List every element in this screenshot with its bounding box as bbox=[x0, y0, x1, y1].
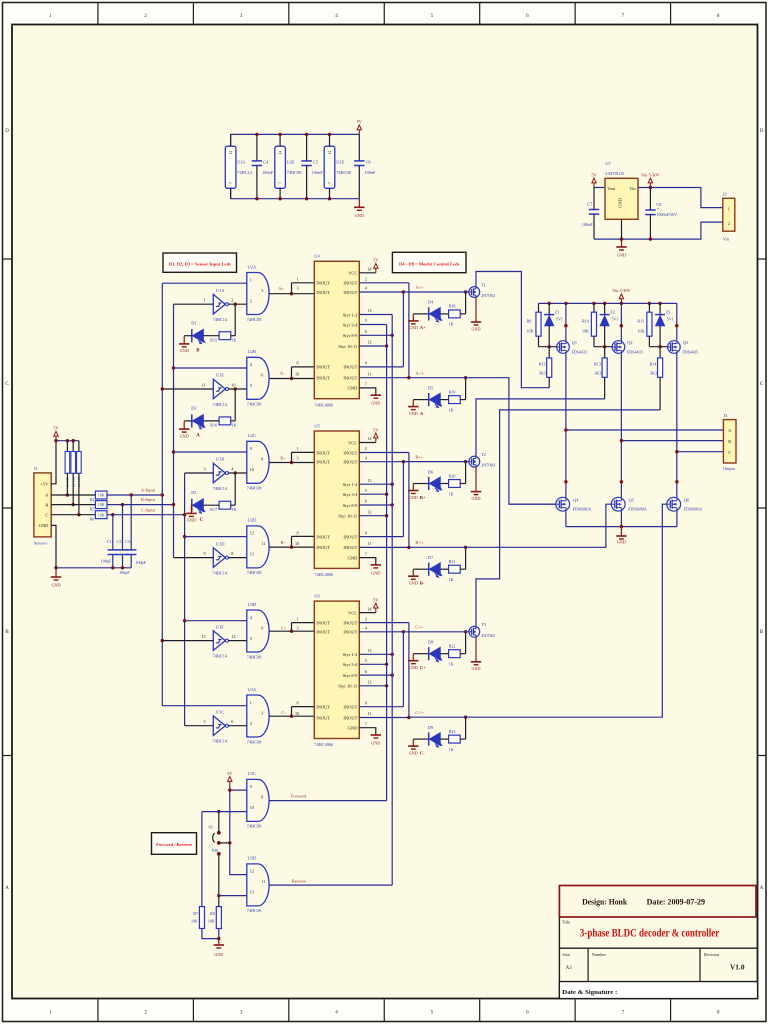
IC U4 74HC4066 quad bilateral switch bbox=[314, 261, 359, 398]
svg-text:INOUT: INOUT bbox=[316, 460, 330, 465]
junction dots filter rail bbox=[111, 566, 114, 569]
wire gate output A- to switch IC bbox=[269, 378, 314, 380]
ground (D5) bbox=[408, 406, 418, 408]
resistor R12 3K3 gate bbox=[548, 347, 550, 358]
junction dots on decoupling buses bbox=[255, 133, 258, 136]
wire net C-/+ bbox=[409, 504, 667, 717]
svg-text:13: 13 bbox=[250, 890, 254, 895]
wire net B+/- to T2 gate bbox=[403, 461, 469, 463]
svg-text:12: 12 bbox=[367, 509, 371, 514]
AND gate U2C 74HC08 bbox=[247, 441, 269, 483]
svg-text:D9: D9 bbox=[428, 725, 433, 730]
svg-text:C-: C- bbox=[420, 750, 425, 755]
svg-text:GND: GND bbox=[371, 570, 380, 575]
svg-text:5: 5 bbox=[365, 318, 367, 323]
ground (D3) bbox=[186, 512, 196, 514]
svg-text:J3: J3 bbox=[723, 413, 727, 418]
svg-text:5V1: 5V1 bbox=[667, 317, 674, 322]
mosfet Q6 FDS6680A low-side bbox=[667, 497, 681, 511]
svg-text:13: 13 bbox=[367, 648, 371, 653]
svg-text:C-/+: C-/+ bbox=[415, 710, 424, 715]
ground (direction) bbox=[218, 939, 220, 945]
svg-text:5V: 5V bbox=[53, 426, 59, 431]
svg-text:T1: T1 bbox=[481, 282, 486, 287]
svg-text:R5: R5 bbox=[90, 507, 94, 511]
svg-text:9: 9 bbox=[250, 784, 252, 789]
svg-text:INOUT: INOUT bbox=[343, 620, 357, 625]
wire U3C pin9 bbox=[230, 789, 247, 791]
junction U1E output bbox=[234, 387, 237, 390]
wire sensor filter ground rail bbox=[56, 567, 131, 569]
wire U4 VCC pin14 bbox=[359, 272, 376, 274]
svg-text:C1: C1 bbox=[107, 539, 112, 544]
svg-text:D: D bbox=[760, 129, 764, 134]
wire U4 pin2-pin11 link bbox=[408, 283, 410, 378]
mosfet Q1 FDS4435 high-side bbox=[557, 341, 570, 354]
svg-text:1000uF/50V: 1000uF/50V bbox=[656, 212, 677, 217]
wire U6 pin4-pin9 link bbox=[402, 632, 404, 707]
wire J3 A bbox=[566, 429, 724, 431]
wire U6 pin5 bbox=[359, 663, 386, 665]
resistor R2 10K pullup bbox=[72, 441, 74, 452]
resistor R15 1K bbox=[234, 304, 236, 336]
svg-text:3: 3 bbox=[297, 626, 299, 631]
AND gate U2D 74HC08 bbox=[247, 526, 269, 568]
wire gate node Q2 bbox=[594, 346, 612, 348]
svg-text:INOUT: INOUT bbox=[343, 450, 357, 455]
wire Q2 drain bbox=[620, 353, 622, 497]
svg-text:C4: C4 bbox=[263, 159, 269, 164]
svg-text:Styr 3-4: Styr 3-4 bbox=[343, 492, 358, 497]
inverter U1E 74HC14 bbox=[213, 379, 225, 399]
svg-text:R17: R17 bbox=[210, 507, 217, 512]
svg-text:100pF: 100pF bbox=[135, 560, 146, 565]
svg-text:100nF: 100nF bbox=[365, 170, 377, 175]
resistor R14 3K3 gate bbox=[659, 347, 661, 358]
svg-text:9: 9 bbox=[365, 530, 367, 535]
svg-text:2: 2 bbox=[365, 616, 367, 621]
capacitor C4 100nF bbox=[256, 134, 258, 161]
svg-text:Vin: Vin bbox=[629, 186, 636, 191]
svg-text:Reverse: Reverse bbox=[292, 878, 307, 883]
svg-text:74HC08: 74HC08 bbox=[247, 570, 262, 575]
svg-text:10: 10 bbox=[295, 371, 299, 376]
connector J1 Sensors bbox=[34, 473, 51, 537]
svg-text:INOUT: INOUT bbox=[343, 705, 357, 710]
mosfet Q5 FDS6680A low-side bbox=[611, 497, 625, 511]
svg-text:3: 3 bbox=[261, 710, 263, 715]
svg-text:Vin 5-30V: Vin 5-30V bbox=[612, 288, 631, 293]
wire U6 pin2 bbox=[359, 622, 409, 624]
svg-text:1: 1 bbox=[297, 616, 299, 621]
svg-text:74HC08: 74HC08 bbox=[247, 739, 262, 744]
svg-text:2N7002: 2N7002 bbox=[481, 293, 495, 298]
wire gate node Q1 bbox=[539, 346, 557, 348]
svg-text:11: 11 bbox=[367, 711, 371, 716]
svg-text:7: 7 bbox=[229, 182, 233, 184]
switch S1 F/R bbox=[217, 831, 221, 835]
mosfet Q2 FDS4435 high-side bbox=[612, 341, 625, 354]
svg-text:GND: GND bbox=[471, 496, 480, 501]
bus A vertical bbox=[161, 283, 163, 706]
resistor R3 10K pullup bbox=[78, 441, 80, 452]
svg-text:Q3: Q3 bbox=[683, 340, 688, 345]
svg-text:5: 5 bbox=[250, 383, 252, 388]
resistor R22 1K bbox=[440, 653, 448, 655]
wire U4 pin6 bbox=[359, 334, 392, 336]
svg-text:8: 8 bbox=[231, 551, 233, 556]
svg-text:Date: 2009-07-29: Date: 2009-07-29 bbox=[647, 897, 706, 907]
svg-text:9: 9 bbox=[204, 551, 206, 556]
svg-text:U1D: U1D bbox=[216, 541, 225, 546]
svg-text:1K: 1K bbox=[232, 337, 237, 342]
wire pulldown bottoms bbox=[202, 929, 219, 939]
svg-text:D1, D2, D3 = Sensor Input Leds: D1, D2, D3 = Sensor Input Leds bbox=[169, 261, 231, 266]
wire Q1 drain bbox=[565, 353, 567, 497]
svg-text:INOUT: INOUT bbox=[343, 290, 357, 295]
label box forward/reverse bbox=[152, 833, 197, 855]
resistor R21 1K bbox=[440, 568, 448, 570]
wire Forward vertical bus bbox=[386, 325, 388, 801]
svg-text:INOUT: INOUT bbox=[343, 281, 357, 286]
junction dots bus A bbox=[161, 387, 164, 390]
svg-text:100pF: 100pF bbox=[119, 570, 130, 575]
title block design/date bbox=[559, 886, 756, 918]
ground (U5) bbox=[371, 564, 381, 566]
svg-text:Vin: Vin bbox=[723, 237, 730, 242]
svg-text:U6: U6 bbox=[314, 594, 320, 599]
svg-text:LM78L05: LM78L05 bbox=[605, 171, 624, 176]
wire U6 pin11 bbox=[359, 717, 409, 719]
svg-text:74HC08: 74HC08 bbox=[247, 654, 262, 659]
svg-text:GND: GND bbox=[409, 581, 418, 586]
svg-text:8: 8 bbox=[297, 700, 299, 705]
wire Q4 source bbox=[565, 511, 567, 526]
svg-text:U2B: U2B bbox=[248, 349, 257, 354]
svg-text:INOUT: INOUT bbox=[343, 534, 357, 539]
svg-text:Z1: Z1 bbox=[555, 309, 560, 314]
svg-text:74HC14: 74HC14 bbox=[213, 570, 228, 575]
svg-text:2N7002: 2N7002 bbox=[481, 633, 495, 638]
svg-text:11: 11 bbox=[261, 879, 265, 884]
svg-text:GND: GND bbox=[409, 495, 418, 500]
wire U4 pin11 bbox=[359, 377, 409, 379]
svg-text:INOUT: INOUT bbox=[343, 376, 357, 381]
LED D8 bbox=[413, 653, 428, 655]
power Vin 5-30V (bridge) bbox=[620, 299, 622, 304]
wire U7 Vin to J2 pin1 bbox=[638, 188, 723, 208]
wire U6 pin2-pin11 link bbox=[408, 623, 410, 718]
wire U7 GND stub bbox=[621, 219, 623, 239]
LED D9 bbox=[413, 738, 428, 740]
svg-text:7: 7 bbox=[328, 182, 332, 184]
svg-text:Styr 1-2: Styr 1-2 bbox=[343, 652, 358, 657]
svg-text:2: 2 bbox=[365, 277, 367, 282]
wire U4 pin9 bbox=[359, 366, 403, 368]
wire U5 VCC pin14 bbox=[359, 442, 376, 444]
svg-text:FDS4435: FDS4435 bbox=[682, 349, 698, 354]
svg-text:FDS6680A: FDS6680A bbox=[684, 507, 703, 512]
power Vin 5-30V (regulator in) bbox=[649, 183, 651, 188]
svg-text:100nF: 100nF bbox=[262, 170, 274, 175]
capacitor C7 100nF bbox=[593, 188, 595, 210]
svg-text:14: 14 bbox=[229, 151, 233, 155]
svg-text:10: 10 bbox=[250, 805, 254, 810]
svg-text:U1B: U1B bbox=[216, 457, 225, 462]
svg-text:U1A: U1A bbox=[216, 288, 225, 293]
svg-text:INOUT: INOUT bbox=[316, 450, 330, 455]
svg-text:8: 8 bbox=[297, 361, 299, 366]
svg-text:11: 11 bbox=[367, 371, 371, 376]
zener Z1 5V1 bbox=[548, 303, 550, 314]
svg-text:R4: R4 bbox=[90, 498, 94, 502]
wire U6 pin13 bbox=[359, 653, 392, 655]
connector J3 Output bbox=[723, 420, 736, 463]
wire J1 +5V pin bbox=[51, 441, 56, 484]
svg-text:5: 5 bbox=[204, 719, 206, 724]
svg-text:8: 8 bbox=[261, 457, 263, 462]
svg-text:U7: U7 bbox=[605, 161, 611, 166]
svg-text:10K: 10K bbox=[208, 918, 215, 923]
svg-text:1: 1 bbox=[204, 298, 206, 303]
ground (D7) bbox=[408, 575, 418, 577]
LED D6 bbox=[413, 483, 428, 485]
svg-text:D: D bbox=[5, 129, 9, 134]
svg-text:D4: D4 bbox=[428, 300, 434, 305]
svg-text:1K: 1K bbox=[232, 507, 237, 512]
svg-text:R21: R21 bbox=[449, 559, 456, 564]
svg-text:Q2: Q2 bbox=[627, 340, 632, 345]
ground (T2) bbox=[475, 467, 477, 492]
svg-text:6: 6 bbox=[365, 329, 367, 334]
svg-text:FDS4435: FDS4435 bbox=[572, 349, 588, 354]
svg-text:74HC08: 74HC08 bbox=[247, 402, 262, 407]
svg-text:6: 6 bbox=[231, 719, 233, 724]
svg-text:3-phase BLDC decoder & control: 3-phase BLDC decoder & controller bbox=[580, 927, 720, 939]
wire bus B to U2C pin9 bbox=[174, 451, 247, 453]
svg-text:D8: D8 bbox=[428, 640, 433, 645]
wire U4 pin13 (Styr 1-2) bbox=[359, 314, 392, 316]
svg-text:B+: B+ bbox=[420, 495, 426, 500]
wire bus B to U2B pin4 bbox=[174, 367, 247, 369]
LED D2 bbox=[191, 414, 193, 427]
resistor R7 10K bbox=[199, 907, 204, 929]
resistor R9 10K bbox=[538, 303, 540, 312]
wire J3 C bbox=[677, 451, 724, 453]
power 5V (direction) bbox=[229, 781, 231, 786]
wire gate node Q3 bbox=[649, 346, 667, 348]
svg-text:GND: GND bbox=[409, 325, 418, 330]
ground (D1) bbox=[179, 343, 189, 345]
svg-text:INOUT: INOUT bbox=[316, 365, 330, 370]
junction dots ground rail bbox=[620, 237, 623, 240]
svg-text:C: C bbox=[45, 512, 48, 517]
wire GND bus bottom bbox=[231, 198, 360, 200]
junction S1 feed bbox=[228, 841, 231, 844]
svg-text:INOUT: INOUT bbox=[316, 630, 330, 635]
svg-text:INOUT: INOUT bbox=[343, 365, 357, 370]
svg-text:C5: C5 bbox=[313, 159, 318, 164]
resistor R10 10K bbox=[593, 303, 595, 312]
wire U1C output bbox=[228, 725, 247, 727]
svg-text:INOUT: INOUT bbox=[343, 715, 357, 720]
inverter U1F 74HC14 bbox=[213, 631, 225, 651]
svg-text:B: B bbox=[45, 502, 48, 507]
svg-text:6: 6 bbox=[261, 373, 263, 378]
wire gate output B- to switch IC bbox=[269, 546, 314, 548]
wire T1 drain route bbox=[476, 272, 549, 388]
svg-text:VCC: VCC bbox=[348, 440, 357, 445]
svg-text:Styr 8-9: Styr 8-9 bbox=[343, 333, 358, 338]
svg-text:13: 13 bbox=[367, 308, 371, 313]
svg-text:GND: GND bbox=[471, 666, 480, 671]
svg-text:5: 5 bbox=[365, 488, 367, 493]
resistor R8 10K bbox=[216, 907, 221, 929]
resistor R16 1K bbox=[234, 389, 236, 421]
capacitor C5 100nF bbox=[306, 134, 308, 161]
label box mosfet control leds bbox=[392, 252, 466, 272]
svg-text:C: C bbox=[200, 518, 204, 523]
zener Z2 5V1 bbox=[604, 303, 606, 314]
svg-text:10K: 10K bbox=[98, 513, 105, 517]
svg-text:2: 2 bbox=[365, 446, 367, 451]
svg-text:C7: C7 bbox=[587, 201, 593, 206]
svg-text:74HC08: 74HC08 bbox=[287, 170, 302, 175]
svg-text:14: 14 bbox=[328, 151, 332, 155]
wire net B-/+ bbox=[409, 504, 611, 547]
wire bus A to U3A pin1 bbox=[162, 705, 247, 707]
mosfet Q4 FDS6680A low-side bbox=[556, 497, 570, 511]
wire U1B output bbox=[228, 472, 247, 474]
resistor R11 10K bbox=[648, 303, 650, 312]
svg-text:FDS6680A: FDS6680A bbox=[628, 507, 647, 512]
svg-text:D2: D2 bbox=[191, 406, 196, 411]
junction dots phase nodes bbox=[564, 480, 567, 483]
power 5V (decoupling) bbox=[358, 130, 360, 135]
svg-text:A-Input: A-Input bbox=[141, 488, 156, 493]
svg-text:7: 7 bbox=[365, 382, 367, 387]
wire J1 GND pin bbox=[51, 525, 56, 567]
svg-text:GND: GND bbox=[409, 665, 418, 670]
svg-text:100pF: 100pF bbox=[101, 559, 112, 564]
wire Q4 gate stub bbox=[509, 503, 556, 505]
svg-text:INOUT: INOUT bbox=[343, 630, 357, 635]
svg-text:C6: C6 bbox=[366, 159, 372, 164]
svg-text:74HC14: 74HC14 bbox=[213, 317, 228, 322]
svg-text:Styr 10-11: Styr 10-11 bbox=[338, 344, 357, 349]
svg-text:5V: 5V bbox=[591, 172, 597, 177]
power 5V (regulator out) bbox=[593, 183, 595, 188]
svg-text:GND: GND bbox=[180, 348, 189, 353]
svg-text:8: 8 bbox=[297, 530, 299, 535]
wire bus A to U1F input bbox=[162, 640, 213, 642]
wire U5 pin2 bbox=[359, 452, 409, 454]
svg-text:2: 2 bbox=[250, 298, 252, 303]
svg-text:74HC14: 74HC14 bbox=[213, 739, 228, 744]
wire S1 up to U3C pin10 net bbox=[218, 812, 220, 833]
wire U5 pin12 bbox=[359, 515, 386, 517]
svg-text:R13: R13 bbox=[594, 361, 601, 366]
svg-text:Vout: Vout bbox=[607, 186, 616, 191]
svg-text:INOUT: INOUT bbox=[343, 460, 357, 465]
wire net A-/+ bbox=[409, 378, 556, 505]
bus C vertical bbox=[184, 473, 186, 726]
svg-text:10K: 10K bbox=[98, 503, 105, 507]
svg-text:U3E: U3E bbox=[336, 159, 344, 164]
svg-text:INOUT: INOUT bbox=[316, 620, 330, 625]
svg-text:B+: B+ bbox=[280, 456, 286, 461]
power 5V (U5) bbox=[375, 438, 377, 443]
wire U5 pin2-pin11 link bbox=[408, 453, 410, 548]
svg-text:R10: R10 bbox=[582, 318, 589, 323]
svg-text:74HC08: 74HC08 bbox=[247, 824, 262, 829]
ground (D6) bbox=[408, 490, 418, 492]
wire Forward bbox=[269, 800, 386, 802]
svg-text:INOUT: INOUT bbox=[316, 281, 330, 286]
svg-text:D1: D1 bbox=[191, 320, 196, 325]
svg-text:GND: GND bbox=[409, 411, 418, 416]
svg-text:J1: J1 bbox=[34, 466, 38, 471]
AND gate U2A 74HC08 bbox=[247, 273, 269, 315]
capacitor C3 100pF bbox=[130, 493, 133, 496]
svg-text:1K: 1K bbox=[449, 491, 454, 496]
wire T3 drain route bbox=[476, 410, 660, 627]
svg-text:A+: A+ bbox=[420, 325, 426, 330]
wire T2 drain route bbox=[476, 399, 605, 456]
svg-text:FDS6680A: FDS6680A bbox=[573, 507, 592, 512]
svg-text:GND: GND bbox=[371, 401, 380, 406]
svg-text:U3A: U3A bbox=[248, 687, 257, 692]
svg-text:B: B bbox=[728, 439, 731, 444]
wire U5 pin4 bbox=[359, 461, 403, 463]
svg-text:Q4: Q4 bbox=[573, 497, 579, 502]
resistor R13 3K3 gate bbox=[604, 347, 606, 358]
svg-text:74HC4066: 74HC4066 bbox=[314, 572, 334, 577]
svg-text:74HC08: 74HC08 bbox=[247, 486, 262, 491]
wire U4 pin4 bbox=[359, 291, 403, 293]
svg-text:U1C: U1C bbox=[216, 709, 225, 714]
resistor R18 1K bbox=[440, 313, 448, 315]
IC U5 74HC4066 quad bilateral switch bbox=[314, 431, 359, 568]
svg-text:1: 1 bbox=[297, 446, 299, 451]
wire U5 pin13 bbox=[359, 483, 392, 485]
svg-text:3: 3 bbox=[297, 455, 299, 460]
wire 5V direction vertical bbox=[230, 786, 247, 875]
svg-text:D3: D3 bbox=[191, 490, 196, 495]
capacitor C8 1000uF/50V electrolytic bbox=[649, 188, 651, 211]
wire Reverse bbox=[269, 884, 392, 886]
svg-text:12: 12 bbox=[250, 869, 254, 874]
svg-text:VCC: VCC bbox=[348, 610, 357, 615]
wire net A+/- to T1 gate bbox=[403, 291, 469, 293]
IC block U2E 74HC08 (power pins) bbox=[275, 146, 286, 188]
svg-text:C8: C8 bbox=[656, 202, 661, 207]
resistor R23 1K bbox=[440, 738, 448, 740]
ground (regulator) bbox=[621, 239, 623, 247]
svg-text:7: 7 bbox=[365, 721, 367, 726]
wire U5 pin11 bbox=[359, 546, 409, 548]
svg-text:3: 3 bbox=[297, 286, 299, 291]
svg-text:3K3: 3K3 bbox=[594, 371, 601, 376]
LED D5 bbox=[413, 399, 428, 401]
wire R12 bottom bbox=[548, 377, 550, 387]
svg-text:INOUT: INOUT bbox=[316, 545, 330, 550]
svg-text:Styr 10-11: Styr 10-11 bbox=[338, 514, 357, 519]
wire J3 B bbox=[621, 440, 723, 442]
svg-text:13: 13 bbox=[250, 552, 254, 557]
svg-text:R8: R8 bbox=[210, 911, 215, 916]
resistor R1 10K pullup bbox=[66, 441, 68, 452]
